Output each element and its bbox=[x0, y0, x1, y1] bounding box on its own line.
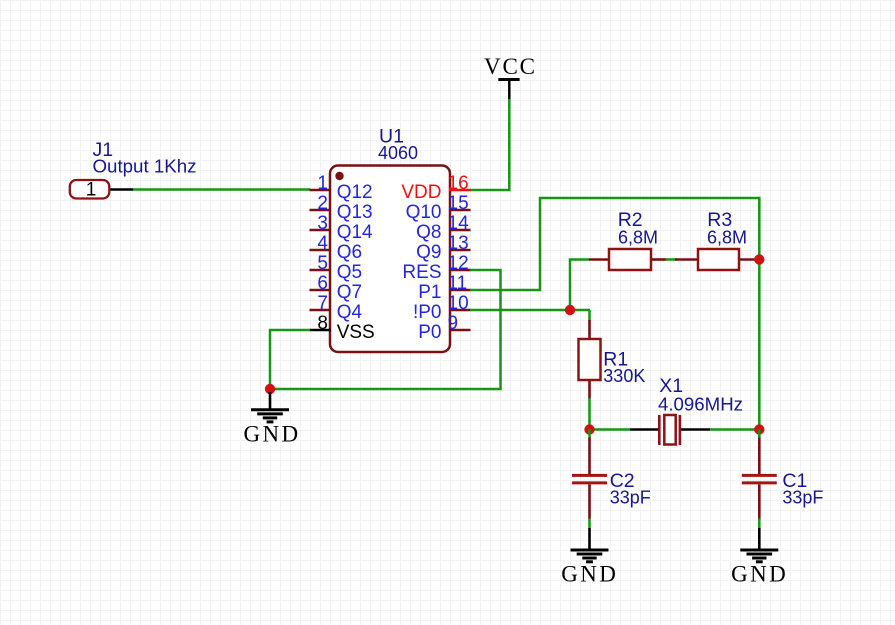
U1 right pin names bbox=[401, 182, 441, 343]
U1 left pin names bbox=[337, 182, 375, 343]
svg-text:15: 15 bbox=[448, 193, 469, 214]
svg-text:12: 12 bbox=[448, 253, 469, 274]
power VCC symbol bbox=[484, 54, 537, 100]
svg-text:RES: RES bbox=[402, 262, 441, 283]
U1 left pin numbers bbox=[317, 173, 328, 334]
svg-text:6: 6 bbox=[317, 273, 328, 294]
wire U1 pin 8 VSS to GND bbox=[270, 330, 310, 389]
svg-text:P1: P1 bbox=[418, 282, 441, 303]
svg-text:GND: GND bbox=[243, 422, 300, 447]
wire R3 node down to crystal right node bbox=[758, 260, 761, 430]
svg-text:13: 13 bbox=[448, 233, 469, 254]
svg-text:1: 1 bbox=[317, 173, 328, 194]
svg-text:Q14: Q14 bbox=[337, 222, 373, 243]
svg-text:Q10: Q10 bbox=[406, 202, 442, 223]
resistor R3 bbox=[675, 249, 757, 270]
junction at R3 right bbox=[754, 254, 764, 264]
wire feedback loop R3 right / top to U1 pin 11 P1 bbox=[470, 198, 759, 290]
wire J1 to U1 pin 1 bbox=[132, 188, 310, 191]
svg-text:Q7: Q7 bbox=[337, 282, 362, 303]
svg-text:Q12: Q12 bbox=[337, 182, 373, 203]
svg-text:VDD: VDD bbox=[401, 182, 441, 203]
wire node down to R1 top bbox=[588, 310, 591, 321]
svg-text:33pF: 33pF bbox=[610, 488, 651, 508]
ground GND symbol (under C2) bbox=[561, 528, 618, 587]
svg-text:10: 10 bbox=[448, 293, 469, 314]
crystal X1 bbox=[630, 415, 710, 445]
svg-text:6,8M: 6,8M bbox=[707, 228, 747, 248]
svg-text:VCC: VCC bbox=[484, 54, 537, 79]
junction at crystal right node bbox=[754, 424, 764, 434]
wire crystal left node to X1 bbox=[590, 428, 631, 431]
svg-text:Q6: Q6 bbox=[337, 242, 362, 263]
svg-text:Q8: Q8 bbox=[416, 222, 441, 243]
svg-text:Q9: Q9 bbox=[416, 242, 441, 263]
junction at crystal left node bbox=[584, 424, 594, 434]
svg-text:1: 1 bbox=[86, 180, 97, 201]
wire node to R2 left bbox=[570, 260, 590, 311]
wire C2 bottom to GND bbox=[588, 519, 591, 530]
svg-text:4060: 4060 bbox=[378, 143, 418, 163]
svg-text:6,8M: 6,8M bbox=[618, 228, 658, 248]
svg-text:5: 5 bbox=[317, 253, 328, 274]
svg-text:VSS: VSS bbox=[337, 322, 375, 343]
ground GND symbol (under C1) bbox=[731, 528, 788, 587]
svg-text:P0: P0 bbox=[418, 322, 441, 343]
wire ground bus to U1 pin 12 RES bbox=[270, 270, 501, 389]
svg-text:2: 2 bbox=[317, 193, 328, 214]
svg-text:33pF: 33pF bbox=[782, 488, 823, 508]
wire R2 right to R3 left bbox=[666, 258, 678, 261]
wire R1 bottom to crystal left node bbox=[588, 398, 591, 430]
connector J1 bbox=[70, 180, 133, 201]
svg-text:Q4: Q4 bbox=[337, 302, 363, 323]
svg-text:16: 16 bbox=[448, 173, 469, 194]
wire X1 right to crystal right node bbox=[710, 428, 760, 431]
U1 right pin numbers bbox=[448, 173, 470, 334]
svg-text:3: 3 bbox=[317, 213, 328, 234]
junction at !P0 node bbox=[565, 305, 575, 315]
svg-text:Q5: Q5 bbox=[337, 262, 362, 283]
U1 left pin stubs 1-7 bbox=[310, 190, 332, 310]
wire C1 bottom to GND bbox=[758, 519, 761, 530]
capacitor C1 bbox=[742, 430, 777, 520]
ground GND symbol (under U1) bbox=[243, 392, 300, 447]
svg-text:4.096MHz: 4.096MHz bbox=[658, 395, 743, 415]
U1 right pin stubs 15-9 bbox=[449, 210, 471, 330]
svg-text:8: 8 bbox=[317, 313, 328, 334]
U1 pin 16 stub (VDD, red) bbox=[449, 189, 471, 192]
junction at GND node bbox=[265, 384, 275, 394]
svg-text:7: 7 bbox=[317, 293, 328, 314]
capacitor C2 bbox=[572, 430, 607, 520]
wire VCC to U1 pin 16 bbox=[470, 99, 509, 190]
wire U1 pin 10 !P0 to node bbox=[470, 309, 590, 312]
svg-text:11: 11 bbox=[448, 273, 468, 294]
svg-text:14: 14 bbox=[448, 213, 470, 234]
svg-text:4: 4 bbox=[317, 233, 328, 254]
svg-text:GND: GND bbox=[731, 562, 788, 587]
svg-text:!P0: !P0 bbox=[413, 302, 442, 323]
resistor R1 bbox=[579, 320, 601, 399]
svg-text:9: 9 bbox=[448, 313, 459, 334]
svg-text:Output 1Khz: Output 1Khz bbox=[93, 156, 197, 176]
U1 pin 8 stub (VSS, black) bbox=[310, 329, 332, 332]
IC U1 4060 bbox=[330, 166, 450, 353]
resistor R2 bbox=[589, 249, 667, 270]
svg-text:GND: GND bbox=[561, 562, 618, 587]
svg-text:Q13: Q13 bbox=[337, 202, 373, 223]
svg-text:330K: 330K bbox=[603, 366, 645, 386]
